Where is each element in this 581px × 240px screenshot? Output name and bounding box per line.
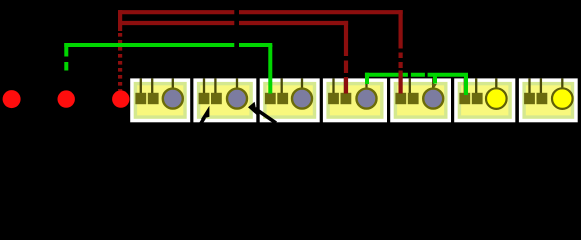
red node 2 <box>57 90 74 107</box>
LED lamp M6 <box>486 88 507 109</box>
pin pad 2 M1 <box>148 93 159 104</box>
green wire 1: left vertical to red node 2 <box>64 43 68 71</box>
LED lamp M5 <box>423 89 443 109</box>
pin pad 2 M5 <box>408 93 419 104</box>
pin pad 1 M3 <box>265 93 276 104</box>
maroon wire: vertical drop to module M4 pin 2 <box>344 21 348 94</box>
annotation arrow 1 (points at module M2 pads) <box>198 106 209 128</box>
pin pad 1 M2 <box>199 93 210 104</box>
red node 3 <box>112 90 129 107</box>
pin pad 2 M7 <box>537 93 548 104</box>
pin pad 2 M2 <box>211 93 222 104</box>
pin pad 2 M4 <box>341 93 352 104</box>
LED lamp M4 <box>357 89 377 109</box>
green wire 2: right vertical into module M6 pin 1 <box>464 75 468 95</box>
maroon bus wires <box>118 10 403 93</box>
pin pad 2 M6 <box>472 93 483 104</box>
pin pad 1 M1 <box>135 93 146 104</box>
green wire 1: horizontal run <box>64 43 272 47</box>
LED module M5 <box>390 78 451 122</box>
green wire 2: left vertical to module M4 LED pin <box>365 73 369 84</box>
green wire 1: vertical drop into module M3 pin 1 <box>268 45 272 94</box>
green wire 2 (module M4 LED pin to module M6 pin1) <box>365 73 468 95</box>
LED module M3 <box>260 78 320 122</box>
LED lamp M7 <box>552 88 573 109</box>
module M5 LED stem funnel <box>432 84 437 88</box>
pin stems M7 <box>528 78 530 94</box>
green wire 2: horizontal run with crossing gaps <box>365 73 468 77</box>
LED module M1 <box>130 78 190 122</box>
pin pad 1 M7 <box>524 93 535 104</box>
LED module M6 <box>454 78 515 122</box>
LED lamp M1 <box>163 89 183 109</box>
annotation arrow 2 (points at module M2 LED) <box>248 102 276 123</box>
green wire 2: tick down to module M5 LED pin <box>433 75 437 84</box>
pin stems M4 <box>332 78 334 94</box>
pin stems M6 <box>464 78 466 94</box>
pin pad 1 M4 <box>328 93 339 104</box>
LED module M7 <box>519 78 578 122</box>
pin stems M1 <box>140 78 142 94</box>
LED lamp M3 <box>292 89 312 109</box>
pin pad 1 M6 <box>459 93 470 104</box>
maroon wire: second horizontal run (node3 column to M4.pin2) <box>118 21 348 25</box>
maroon wire: dashed vertical drop to module M5 pin 1 <box>399 10 403 93</box>
pin stems M2 <box>203 78 205 94</box>
LED module M2 <box>193 78 256 122</box>
green wire 1 (node2 to module M3 pin1) <box>64 43 272 94</box>
pin pad 1 M5 <box>395 93 406 104</box>
LED lamp M2 <box>227 89 247 109</box>
LED module M4 <box>323 78 387 122</box>
maroon wire: left vertical drop to red node 3 <box>118 10 122 31</box>
pin stems M5 <box>400 78 402 94</box>
red node 1 <box>3 90 21 108</box>
maroon wire: top horizontal run (node3 column to M5.pin1) <box>118 10 403 14</box>
pin stems M3 <box>269 78 271 94</box>
pin pad 2 M3 <box>277 93 288 104</box>
